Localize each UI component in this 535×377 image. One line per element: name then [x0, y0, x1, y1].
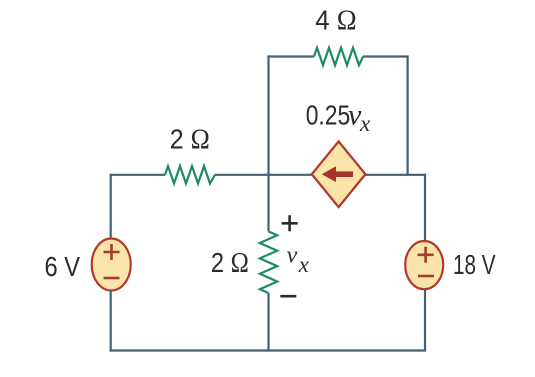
wire: middle vertical from node B down to 2-ohm vertical resistor	[267, 175, 269, 232]
wire: middle vertical upper segment (node B up to top loop)	[267, 57, 269, 175]
resistor R2 2-ohm vertical zigzag	[260, 232, 277, 294]
svg-text:6 V: 6 V	[45, 251, 81, 282]
wire: middle horizontal from left rail to 2-ohm resistor	[111, 174, 165, 176]
wire: right rail lower segment	[424, 289, 426, 352]
plus polarity mark of vx	[282, 215, 298, 231]
voltage source V1 6V ellipse	[92, 239, 131, 291]
wire: middle horizontal from 2-ohm to dependent source	[215, 174, 312, 176]
wire: middle vertical below resistor to bottom rail	[267, 293, 269, 352]
wire: top horizontal left stub to 4-ohm resistor	[267, 55, 314, 57]
resistor R3 4-ohm zigzag	[314, 48, 363, 65]
svg-text:2 Ω: 2 Ω	[170, 124, 210, 156]
dependent current source U1 diamond	[312, 141, 366, 207]
svg-text:x: x	[298, 252, 310, 277]
minus sign of V2	[418, 275, 434, 278]
voltage source V2 18V ellipse	[405, 241, 443, 289]
wire: top horizontal right stub from 4-ohm	[363, 55, 409, 57]
svg-text:v: v	[287, 243, 298, 269]
svg-text:4 Ω: 4 Ω	[315, 5, 357, 37]
svg-text:0.25: 0.25	[306, 100, 351, 131]
svg-text:2 Ω: 2 Ω	[211, 247, 249, 279]
wire: top loop right vertical down to middle wire	[407, 57, 409, 175]
wire: left rail upper segment	[110, 174, 112, 240]
plus sign of V1	[104, 244, 120, 260]
minus polarity mark of vx	[280, 295, 296, 298]
wire: bottom rail	[110, 349, 427, 351]
wire: right rail upper segment	[424, 174, 426, 242]
svg-text:x: x	[359, 111, 371, 136]
svg-text:18 V: 18 V	[453, 249, 496, 280]
plus sign of V2	[418, 247, 434, 263]
wire: left rail lower segment	[110, 290, 112, 352]
minus sign of V1	[104, 277, 120, 280]
arrow inside dependent source pointing left	[322, 166, 353, 182]
resistor R1 2-ohm horizontal zigzag	[165, 166, 215, 183]
wire: middle horizontal from dependent source to right rail	[365, 174, 426, 176]
